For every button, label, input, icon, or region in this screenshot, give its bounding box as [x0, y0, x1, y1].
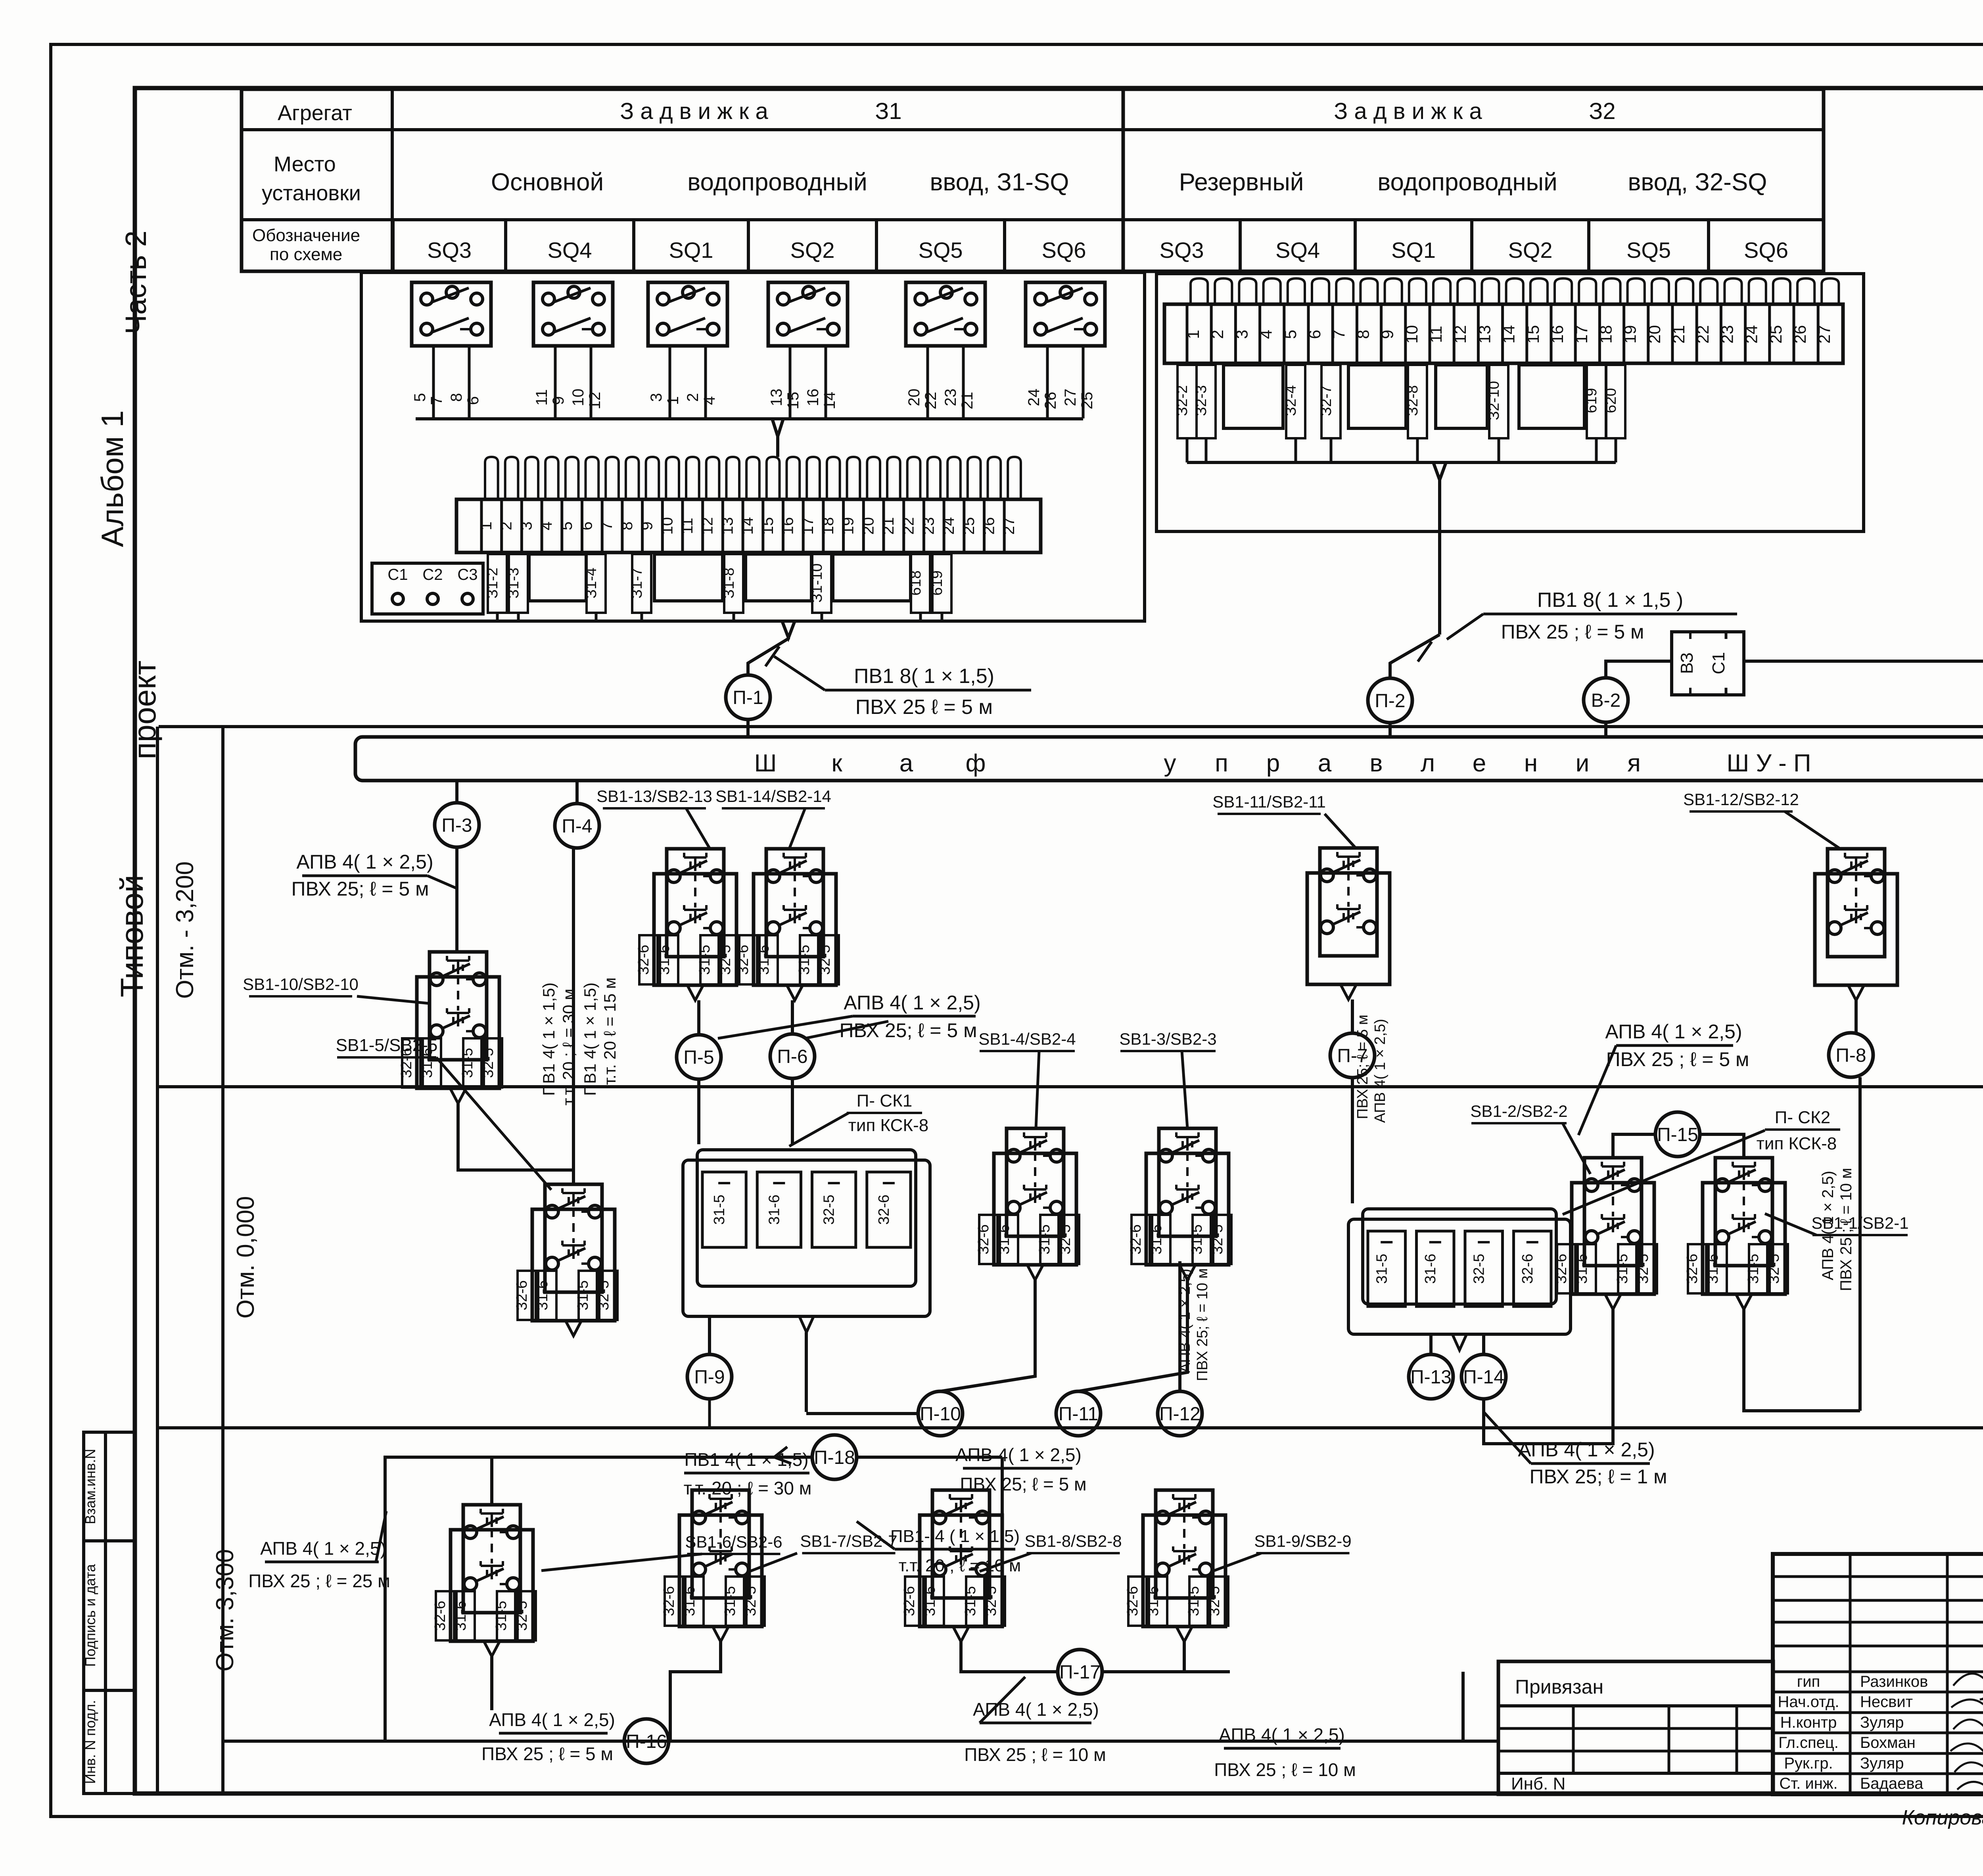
terminal tabs under SB unit: [739, 935, 757, 984]
svg-text:31-5: 31-5: [1185, 1586, 1202, 1616]
stem SB1-8 to П-17: [961, 1642, 1058, 1672]
svg-text:SB1-5/SB2-5: SB1-5/SB2-5: [336, 1036, 438, 1055]
pushbutton unit SB at 1240,3794: [451, 1530, 533, 1641]
svg-text:11: 11: [533, 389, 550, 406]
svg-text:23: 23: [942, 389, 959, 407]
KCK-8 terminal assembly: [683, 1160, 930, 1316]
funnel under SB unit: [713, 1627, 729, 1642]
limit switch contact box at 1138: [412, 282, 491, 346]
svg-text:6: 6: [464, 396, 482, 405]
svg-text:Н.контр: Н.контр: [1780, 1714, 1837, 1731]
svg-text:32-6: 32-6: [635, 945, 652, 975]
svg-text:12: 12: [699, 517, 716, 535]
svg-text:а: а: [1318, 750, 1332, 777]
svg-text:13: 13: [1475, 325, 1494, 344]
svg-text:9: 9: [1378, 330, 1397, 339]
svg-text:ПВХ 25 ; ℓ = 5 м: ПВХ 25 ; ℓ = 5 м: [1606, 1048, 1749, 1070]
svg-text:32-5: 32-5: [1209, 1224, 1226, 1255]
svg-text:7: 7: [428, 396, 445, 405]
svg-text:Подпись и дата: Подпись и дата: [82, 1564, 98, 1667]
svg-text:П-16: П-16: [626, 1731, 667, 1752]
svg-text:32-6: 32-6: [1684, 1254, 1701, 1284]
svg-text:АПВ 4( 1 × 2,5): АПВ 4( 1 × 2,5): [489, 1709, 615, 1730]
svg-text:З а д в и ж к а: З а д в и ж к а: [620, 98, 768, 124]
svg-text:1: 1: [664, 396, 682, 405]
svg-text:32-5: 32-5: [514, 1601, 530, 1631]
svg-text:31-5: 31-5: [493, 1601, 510, 1631]
svg-text:32-6: 32-6: [735, 945, 752, 975]
svg-text:8: 8: [1354, 330, 1372, 339]
svg-text:31-5: 31-5: [1614, 1254, 1631, 1284]
svg-text:32-5: 32-5: [717, 945, 734, 975]
limit switch contact box at 2384: [906, 282, 985, 346]
node П-16: [624, 1719, 669, 1763]
svg-text:22: 22: [900, 517, 917, 535]
svg-text:27: 27: [1815, 325, 1833, 344]
elevation label column: [156, 727, 159, 1794]
svg-text:18: 18: [819, 517, 837, 535]
svg-text:Отм. 3,300: Отм. 3,300: [211, 1549, 239, 1672]
pushbutton unit SB at 3400,2138: [1307, 873, 1390, 984]
node П-2: [1368, 678, 1412, 723]
svg-text:7: 7: [598, 522, 616, 530]
svg-text:23: 23: [1718, 325, 1736, 344]
svg-text:водопроводный: водопроводный: [687, 169, 867, 196]
node П-9: [687, 1354, 732, 1399]
svg-text:16: 16: [1548, 325, 1567, 344]
svg-text:32-6: 32-6: [876, 1195, 892, 1225]
svg-text:П-2: П-2: [1375, 691, 1405, 712]
svg-text:SQ4: SQ4: [547, 238, 592, 263]
funnel under SB unit: [1848, 985, 1864, 1000]
stem SB1-14 to П-6: [791, 1000, 794, 1035]
svg-text:2: 2: [1208, 330, 1227, 339]
svg-text:31-5: 31-5: [1373, 1254, 1390, 1284]
terminal tabs under SB unit: [436, 1591, 454, 1640]
svg-text:9: 9: [550, 396, 567, 405]
svg-text:31-6: 31-6: [1145, 1586, 1162, 1616]
stem SB1-9 down: [1183, 1642, 1186, 1672]
node П-1: [726, 675, 770, 719]
svg-text:у: у: [1164, 750, 1176, 777]
svg-text:Инв. N подл.: Инв. N подл.: [82, 1700, 98, 1784]
svg-text:АПВ 4( 1 × 2,5): АПВ 4( 1 × 2,5): [1372, 1019, 1388, 1123]
title block main frame: [1773, 1554, 1983, 1794]
svg-text:ПВХ 25; ℓ = 10 м: ПВХ 25; ℓ = 10 м: [1194, 1268, 1211, 1381]
terminal tabs under SB unit: [979, 1215, 997, 1264]
svg-text:SB1-8/SB2-8: SB1-8/SB2-8: [1024, 1532, 1122, 1550]
svg-text:16: 16: [779, 517, 797, 535]
svg-text:8: 8: [618, 522, 636, 530]
row divider -3,200 / 0,000: [157, 1085, 1983, 1088]
terminal tabs under SB unit: [905, 1577, 923, 1626]
svg-text:П-18: П-18: [814, 1447, 855, 1468]
svg-text:10: 10: [658, 517, 676, 535]
svg-text:6: 6: [1305, 330, 1324, 339]
svg-text:SB1-4/SB2-4: SB1-4/SB2-4: [978, 1030, 1076, 1048]
svg-text:З1: З1: [875, 98, 901, 124]
wire П-17 to SB1-9: [1102, 1670, 1230, 1673]
svg-text:Нач.отд.: Нач.отд.: [1778, 1693, 1839, 1711]
node П-7: [1330, 1033, 1375, 1078]
terminal strip of block1: [456, 499, 1041, 552]
svg-text:П-4: П-4: [562, 816, 592, 837]
svg-text:32-6: 32-6: [1128, 1224, 1144, 1255]
svg-text:водопроводный: водопроводный: [1377, 169, 1557, 196]
svg-text:31-5: 31-5: [711, 1195, 728, 1225]
funnel under assembly: [1452, 1334, 1467, 1350]
svg-text:АПВ 4( 1 × 2,5): АПВ 4( 1 × 2,5): [1518, 1439, 1655, 1461]
svg-text:З1-3: З1-3: [505, 568, 522, 598]
svg-text:Инб. N: Инб. N: [1511, 1774, 1565, 1794]
svg-text:п: п: [1215, 750, 1228, 777]
pushbutton unit SB at 1446,2986: [532, 1209, 615, 1321]
node П-6: [770, 1034, 815, 1078]
svg-text:Часть 2: Часть 2: [119, 230, 152, 334]
wires under switch box: [1046, 346, 1049, 418]
svg-text:АПВ 4( 1 × 2,5): АПВ 4( 1 × 2,5): [844, 992, 980, 1014]
C1 C2 C3 box: [372, 563, 483, 614]
svg-text:SB1-2/SB2-2: SB1-2/SB2-2: [1470, 1102, 1567, 1120]
wire В-2 to ВЗ С1 box: [1606, 661, 1672, 678]
svg-text:Отм. 0,000: Отм. 0,000: [232, 1196, 259, 1319]
svg-text:ПВХ 25 ℓ = 5 м: ПВХ 25 ℓ = 5 м: [855, 696, 993, 719]
svg-text:31-5: 31-5: [722, 1586, 738, 1616]
svg-text:ПВХ 25 ; ℓ = 5 м: ПВХ 25 ; ℓ = 5 м: [1501, 621, 1644, 643]
svg-text:П-6: П-6: [777, 1046, 807, 1067]
svg-text:31-6: 31-6: [1705, 1254, 1721, 1284]
svg-text:31-6: 31-6: [1422, 1254, 1439, 1284]
svg-text:тип КСК-8: тип КСК-8: [848, 1116, 928, 1135]
connector tabs under strip block2: [1178, 365, 1197, 438]
gather line bottom of block2: [1187, 461, 1616, 464]
svg-text:20: 20: [1645, 325, 1664, 344]
svg-text:31-5: 31-5: [696, 945, 713, 975]
trunk funnel of block2: [1433, 462, 1446, 480]
svg-text:32-6: 32-6: [975, 1224, 992, 1255]
svg-text:27: 27: [1062, 389, 1079, 407]
svg-text:Гл.спец.: Гл.спец.: [1778, 1734, 1839, 1751]
svg-text:3: 3: [518, 522, 535, 530]
svg-text:т.т. 20 ℓ = 15 м: т.т. 20 ℓ = 15 м: [600, 977, 619, 1085]
wire П-12 riser: [1178, 1261, 1181, 1391]
wires under switch box: [789, 346, 792, 418]
node П-17: [1058, 1650, 1102, 1694]
svg-text:SQ2: SQ2: [790, 238, 834, 263]
svg-text:АПВ 4( 1 × 2,5): АПВ 4( 1 × 2,5): [955, 1444, 1082, 1465]
svg-text:Бадаева: Бадаева: [1860, 1775, 1924, 1792]
svg-text:П-1: П-1: [733, 687, 763, 708]
node П-12: [1158, 1391, 1202, 1436]
svg-text:П- СК1: П- СК1: [857, 1091, 912, 1111]
svg-text:7: 7: [1329, 330, 1348, 339]
svg-text:Зуляр: Зуляр: [1860, 1714, 1904, 1731]
svg-text:SB1-6/SB2-6: SB1-6/SB2-6: [685, 1533, 782, 1551]
svg-text:C3: C3: [457, 566, 478, 583]
limit switch contact box at 2037: [768, 282, 848, 346]
wires П-18: [857, 1456, 1002, 1459]
wire gather bus of block1: [416, 417, 1083, 420]
svg-text:619: 619: [929, 570, 945, 595]
terminal tabs under SB unit: [1688, 1244, 1706, 1293]
svg-text:4: 4: [1257, 330, 1275, 339]
svg-text:Отм. - 3,200: Отм. - 3,200: [171, 861, 199, 999]
funnel under SB unit: [1176, 1627, 1192, 1642]
svg-text:C2: C2: [422, 566, 443, 583]
svg-text:6: 6: [578, 522, 596, 530]
svg-text:П-17: П-17: [1059, 1662, 1101, 1683]
wires under switch box: [926, 346, 929, 418]
valve Z2 switch group box: [1156, 274, 1864, 531]
svg-text:я: я: [1627, 750, 1641, 777]
funnel under assembly: [800, 1316, 814, 1332]
svg-text:10: 10: [1402, 325, 1421, 344]
top table frame: [242, 89, 1824, 271]
svg-text:ПВХ 25 ; ℓ = 25 м: ПВХ 25 ; ℓ = 25 м: [248, 1571, 390, 1591]
node В-2: [1584, 678, 1628, 722]
svg-text:т.т. 20 ; ℓ = 30 м: т.т. 20 ; ℓ = 30 м: [559, 989, 578, 1106]
funnel under SB unit: [1341, 984, 1356, 999]
svg-text:31-6: 31-6: [756, 945, 772, 975]
terminal tabs under SB unit: [639, 935, 658, 984]
svg-text:Основной: Основной: [491, 169, 604, 196]
blank junction boxes under strip block2: [1224, 365, 1283, 428]
svg-text:12: 12: [1451, 325, 1469, 344]
svg-text:по схеме: по схеме: [270, 245, 342, 264]
svg-text:Привязан: Привязан: [1515, 1676, 1603, 1698]
svg-text:32-6: 32-6: [1519, 1254, 1536, 1284]
pushbutton unit SB at 4397,2919: [1703, 1183, 1785, 1294]
svg-text:Ш: Ш: [754, 750, 777, 777]
svg-text:22: 22: [1693, 325, 1712, 344]
svg-text:Ш У - П: Ш У - П: [1726, 750, 1811, 777]
svg-text:SB1-1/SB2-1: SB1-1/SB2-1: [1811, 1214, 1908, 1232]
svg-text:31-6: 31-6: [681, 1586, 698, 1616]
svg-text:В-2: В-2: [1591, 690, 1621, 711]
terminal tabs under SB unit: [518, 1271, 536, 1320]
svg-text:З а д в и ж к а: З а д в и ж к а: [1334, 98, 1482, 124]
svg-text:27: 27: [1000, 517, 1018, 535]
svg-text:C1: C1: [387, 566, 408, 583]
svg-text:Резервный: Резервный: [1179, 169, 1304, 196]
funnel under SB unit: [1027, 1265, 1043, 1280]
svg-text:гип: гип: [1797, 1673, 1820, 1690]
svg-text:32-6: 32-6: [661, 1586, 677, 1616]
pushbutton unit SB at 2994,2845: [1146, 1153, 1229, 1265]
svg-text:С1: С1: [1709, 652, 1728, 674]
valve Z1 switch group box: [361, 272, 1145, 621]
svg-text:З2-4: З2-4: [1283, 385, 1299, 416]
blank junction boxes under strip block1: [529, 554, 586, 601]
cabinet bar ШУ-П: [355, 737, 1983, 781]
svg-text:3: 3: [1232, 330, 1251, 339]
svg-text:П-9: П-9: [694, 1367, 725, 1388]
limit switch contact box at 1734: [648, 282, 727, 346]
svg-text:ПВХ 25 ; ℓ = 5 м: ПВХ 25 ; ℓ = 5 м: [481, 1744, 613, 1764]
svg-text:SB1-9/SB2-9: SB1-9/SB2-9: [1254, 1532, 1351, 1550]
svg-text:р: р: [1266, 750, 1280, 777]
svg-text:ввод, З1-SQ: ввод, З1-SQ: [930, 169, 1069, 196]
wires П-15 to SB1-2 SB1-1: [1613, 1134, 1655, 1158]
svg-text:Разинков: Разинков: [1860, 1673, 1928, 1690]
svg-text:АПВ 4( 1 × 2,5): АПВ 4( 1 × 2,5): [1605, 1020, 1742, 1043]
content bottom edge: [223, 1740, 1498, 1743]
SQ designation cells: [391, 220, 395, 271]
pushbutton unit SB at 2986,3757: [1143, 1515, 1225, 1627]
svg-text:32-5: 32-5: [983, 1586, 999, 1616]
terminal tabs under SB unit: [1557, 1244, 1575, 1293]
svg-text:ПВ1 4( 1 × 1,5): ПВ1 4( 1 × 1,5): [581, 982, 599, 1096]
svg-text:П-5: П-5: [683, 1047, 714, 1068]
svg-text:SB1-7/SB2-7: SB1-7/SB2-7: [800, 1532, 897, 1550]
svg-text:15: 15: [759, 517, 777, 535]
svg-text:SB1-11/SB2-11: SB1-11/SB2-11: [1212, 792, 1326, 811]
funnel under SB unit: [1605, 1294, 1621, 1309]
svg-text:л: л: [1421, 750, 1435, 777]
svg-text:9: 9: [639, 522, 656, 530]
svg-text:П-11: П-11: [1059, 1404, 1098, 1425]
svg-text:4: 4: [538, 522, 555, 530]
svg-text:32-6: 32-6: [1124, 1586, 1141, 1616]
pushbutton unit SB at 4067,2919: [1572, 1183, 1654, 1294]
svg-text:18: 18: [1596, 325, 1615, 344]
svg-text:ввод, З2-SQ: ввод, З2-SQ: [1628, 169, 1767, 196]
svg-text:32-6: 32-6: [1553, 1254, 1570, 1284]
terminal tabs under SB unit: [1131, 1215, 1150, 1264]
svg-text:17: 17: [1572, 325, 1591, 344]
svg-text:32-5: 32-5: [480, 1048, 497, 1078]
pushbutton unit SB at 2423,3757: [920, 1515, 1002, 1627]
wire from block1 to П-1: [782, 621, 795, 638]
svg-text:З2-3: З2-3: [1193, 385, 1210, 416]
wire from block2 to П-2: [1438, 531, 1441, 635]
svg-text:SB1-14/SB2-14: SB1-14/SB2-14: [715, 787, 831, 806]
stem SB1-6 to П-16 wire: [490, 1656, 493, 1710]
svg-text:21: 21: [1669, 325, 1688, 344]
svg-text:13: 13: [719, 517, 736, 535]
title extension box Привязан: [1498, 1661, 1773, 1794]
svg-text:31-5: 31-5: [575, 1280, 591, 1310]
node П-11: [1056, 1391, 1101, 1436]
svg-text:ПВХ 25; ℓ = 5 м: ПВХ 25; ℓ = 5 м: [840, 1019, 977, 1042]
svg-text:31-6: 31-6: [766, 1195, 782, 1225]
stem SB1-4 to П-10: [940, 1280, 1035, 1391]
stem SB1-7 down: [670, 1642, 721, 1741]
stem SB1-13 to П-5: [697, 1000, 700, 1035]
svg-text:20: 20: [905, 389, 923, 407]
node П-10: [918, 1391, 963, 1436]
svg-text:14: 14: [739, 517, 756, 535]
svg-text:32-5: 32-5: [1057, 1224, 1074, 1255]
node П-13: [1409, 1354, 1453, 1399]
svg-text:а: а: [899, 750, 913, 777]
svg-text:20: 20: [859, 517, 877, 535]
funnel under SB unit: [1179, 1265, 1195, 1280]
svg-text:ПВХ 25 ; ℓ = 10 м: ПВХ 25 ; ℓ = 10 м: [964, 1744, 1106, 1765]
svg-text:ПВХ 25; ℓ = 5 м: ПВХ 25; ℓ = 5 м: [1354, 1015, 1371, 1119]
pushbutton unit SB at 1817,3757: [679, 1515, 762, 1627]
row divider 0,000 / 3,300: [157, 1426, 1983, 1429]
wires under switch box: [432, 346, 435, 418]
svg-text:АПВ 4( 1 × 2,5): АПВ 4( 1 × 2,5): [1219, 1724, 1345, 1745]
funnel under SB unit: [484, 1641, 500, 1656]
svg-text:11: 11: [679, 518, 696, 534]
svg-text:ф: ф: [965, 750, 986, 777]
svg-text:АПВ 4( 1 × 2,5): АПВ 4( 1 × 2,5): [296, 851, 433, 873]
svg-text:SB1-10/SB2-10: SB1-10/SB2-10: [243, 975, 359, 994]
svg-text:к: к: [831, 750, 842, 777]
svg-text:31-5: 31-5: [1745, 1254, 1762, 1284]
svg-text:П-8: П-8: [1835, 1045, 1866, 1066]
svg-text:24: 24: [1025, 389, 1043, 407]
svg-text:32-6: 32-6: [901, 1586, 918, 1616]
stem SB1-12 to П-8: [1855, 1000, 1858, 1033]
svg-text:15: 15: [784, 392, 802, 410]
node П-4: [555, 804, 599, 848]
svg-text:З1-2: З1-2: [484, 568, 501, 598]
svg-text:19: 19: [1621, 325, 1640, 344]
svg-text:32-5: 32-5: [595, 1280, 612, 1310]
KCK-8 terminal assembly: [1348, 1219, 1571, 1334]
wire SB1-2 down: [1484, 1309, 1613, 1444]
svg-text:26: 26: [980, 517, 998, 535]
svg-text:н: н: [1524, 750, 1538, 777]
node П-5: [677, 1035, 721, 1079]
svg-text:2: 2: [498, 522, 515, 530]
wire SB1-1 to П-8 riser: [1744, 1309, 1860, 1411]
svg-text:15: 15: [1524, 325, 1542, 344]
node П-8: [1829, 1033, 1873, 1077]
svg-text:23: 23: [920, 517, 937, 535]
svg-text:26: 26: [1042, 392, 1059, 410]
gather line bottom of block1: [497, 620, 942, 623]
node П-14: [1461, 1354, 1506, 1399]
svg-text:ПВХ 25; ℓ = 5 м: ПВХ 25; ℓ = 5 м: [292, 878, 429, 900]
funnel under SB unit: [450, 1088, 466, 1103]
svg-text:14: 14: [821, 392, 838, 410]
svg-text:ПВХ 25 ; ℓ = 10 м: ПВХ 25 ; ℓ = 10 м: [1214, 1759, 1356, 1780]
terminal tabs under SB unit: [665, 1577, 683, 1626]
pushbutton unit SB at 1155,2400: [417, 977, 499, 1088]
svg-text:31-6: 31-6: [1574, 1254, 1590, 1284]
svg-text:З2: З2: [1589, 98, 1615, 124]
svg-text:ПВ1 4( 1 × 1,5): ПВ1 4( 1 × 1,5): [539, 982, 558, 1096]
svg-text:П-13: П-13: [1410, 1367, 1452, 1388]
svg-text:Зуляр: Зуляр: [1860, 1755, 1904, 1772]
svg-text:SQ1: SQ1: [1391, 238, 1436, 263]
svg-text:З2-2: З2-2: [1174, 385, 1191, 416]
funnel under SB unit: [787, 985, 803, 1000]
svg-text:24: 24: [940, 517, 957, 535]
svg-text:П-3: П-3: [441, 815, 472, 836]
svg-text:32-6: 32-6: [514, 1280, 530, 1310]
svg-text:24: 24: [1742, 325, 1761, 344]
svg-text:SQ4: SQ4: [1275, 238, 1320, 263]
node П-4 stem: [575, 781, 579, 803]
svg-text:SB1-13/SB2-13: SB1-13/SB2-13: [596, 787, 712, 806]
svg-text:26: 26: [1791, 325, 1809, 344]
svg-text:SB1-3/SB2-3: SB1-3/SB2-3: [1119, 1030, 1216, 1048]
wires under switch box: [669, 346, 671, 418]
svg-text:31-5: 31-5: [796, 945, 813, 975]
svg-text:ВЗ: ВЗ: [1677, 652, 1697, 674]
svg-text:SQ3: SQ3: [1159, 238, 1204, 263]
svg-text:П-14: П-14: [1463, 1367, 1504, 1388]
funnel under SB unit: [566, 1321, 581, 1336]
svg-text:16: 16: [804, 389, 822, 407]
terminal comb of block2: [1191, 278, 1208, 304]
stem SB1-11 to П-7: [1351, 999, 1354, 1033]
